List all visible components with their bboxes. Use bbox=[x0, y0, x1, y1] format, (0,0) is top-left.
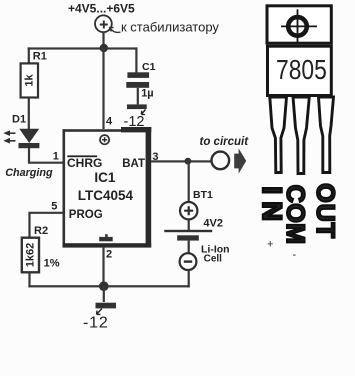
svg-text:D1: D1 bbox=[12, 114, 26, 126]
wire junction down to pin 4 bbox=[102, 48, 104, 129]
op-amp IC1 box bbox=[63, 127, 152, 248]
thermal pad symbol bbox=[99, 234, 113, 241]
junction node bottom bbox=[99, 281, 109, 291]
svg-text:PROG: PROG bbox=[69, 209, 103, 221]
battery minus terminal bbox=[180, 253, 197, 270]
capacitor C1 bbox=[126, 72, 149, 88]
svg-text:+4V5...+6V5: +4V5...+6V5 bbox=[68, 1, 135, 15]
wire plus to plate bbox=[188, 219, 190, 230]
svg-text:1µ: 1µ bbox=[141, 87, 153, 99]
wire top rail bbox=[28, 47, 138, 49]
svg-text:2: 2 bbox=[106, 249, 112, 261]
regulator pin 2 leg bbox=[293, 97, 309, 174]
svg-text:-12: -12 bbox=[83, 315, 109, 332]
wire bottom rail bbox=[28, 285, 189, 287]
svg-text:1: 1 bbox=[53, 151, 59, 163]
regulator 7805 tab bbox=[267, 6, 331, 43]
mounting hole bbox=[281, 9, 317, 42]
wire pin 2 to bottom rail bbox=[102, 247, 104, 286]
svg-text:4: 4 bbox=[106, 116, 113, 128]
regulator pin 1 leg bbox=[270, 97, 287, 173]
wire rail down to C1 bbox=[135, 47, 137, 72]
battery BT1 plates bbox=[164, 230, 212, 241]
terminal output circle bbox=[212, 152, 230, 170]
svg-text:5: 5 bbox=[51, 201, 57, 213]
junction node BAT bbox=[185, 158, 192, 165]
annotation arrow top -12 bbox=[141, 110, 145, 115]
output block arrow bbox=[234, 148, 246, 173]
regulator 7805 body bbox=[268, 46, 332, 95]
svg-text:R2: R2 bbox=[34, 225, 48, 237]
LED D1 bbox=[19, 129, 40, 148]
svg-text:Charging: Charging bbox=[5, 167, 53, 179]
wire rail down to R1 bbox=[28, 47, 30, 64]
wire terminal to top rail bbox=[102, 32, 104, 48]
svg-text:BAT: BAT bbox=[122, 158, 145, 170]
svg-text:IC1: IC1 bbox=[94, 170, 116, 185]
svg-text:-: - bbox=[293, 249, 297, 261]
regulator pin 3 leg bbox=[319, 97, 334, 173]
svg-text:1k: 1k bbox=[24, 74, 36, 87]
svg-text:BT1: BT1 bbox=[193, 189, 213, 201]
svg-text:C1: C1 bbox=[142, 61, 156, 73]
svg-text:7805: 7805 bbox=[276, 55, 327, 85]
pin CHRG label with overline bbox=[67, 155, 97, 157]
wire minus to bottom rail bbox=[188, 270, 190, 287]
wire junction to battery bbox=[188, 161, 190, 202]
svg-text:-12: -12 bbox=[124, 114, 145, 130]
annotation arrow to stabilizer bbox=[109, 27, 120, 32]
svg-text:+: + bbox=[267, 239, 273, 251]
annotation arrow bottom -12 bbox=[97, 309, 102, 315]
wire C1 to ground bbox=[137, 88, 139, 105]
svg-text:к стабилизатору: к стабилизатору bbox=[121, 20, 219, 35]
ground bar (-12 rail) bbox=[96, 303, 117, 309]
pin 4 polarity mark bbox=[100, 135, 109, 144]
wire pin 3 to output terminal bbox=[151, 160, 212, 162]
svg-text:Cell: Cell bbox=[204, 254, 223, 265]
ground bar C1 (-12 rail) bbox=[127, 104, 147, 109]
wire D1 to pin 1 bbox=[29, 148, 63, 163]
svg-text:R1: R1 bbox=[33, 50, 47, 62]
junction node top bbox=[100, 44, 108, 52]
svg-text:1%: 1% bbox=[44, 257, 60, 269]
resistor R2 bbox=[22, 238, 39, 273]
wire R2 to bottom rail bbox=[28, 272, 30, 287]
resistor R1 bbox=[21, 63, 38, 97]
wire plate to minus terminal bbox=[188, 241, 190, 254]
svg-text:LTC4054: LTC4054 bbox=[78, 188, 134, 203]
svg-text:to circuit: to circuit bbox=[200, 136, 250, 148]
LED light arrows bbox=[3, 130, 15, 143]
svg-text:OUT: OUT bbox=[311, 183, 339, 239]
battery plus terminal bbox=[180, 202, 197, 219]
svg-text:COM: COM bbox=[281, 185, 309, 245]
terminal X1 input (+) bbox=[95, 15, 112, 32]
wire pin 5 to R2 bbox=[30, 213, 63, 238]
svg-text:1k62: 1k62 bbox=[25, 243, 37, 267]
wire junction to ground bbox=[103, 286, 105, 302]
svg-text:4V2: 4V2 bbox=[203, 218, 223, 230]
svg-text:CHRG: CHRG bbox=[67, 156, 102, 170]
wire R1 to D1 bbox=[28, 98, 30, 130]
